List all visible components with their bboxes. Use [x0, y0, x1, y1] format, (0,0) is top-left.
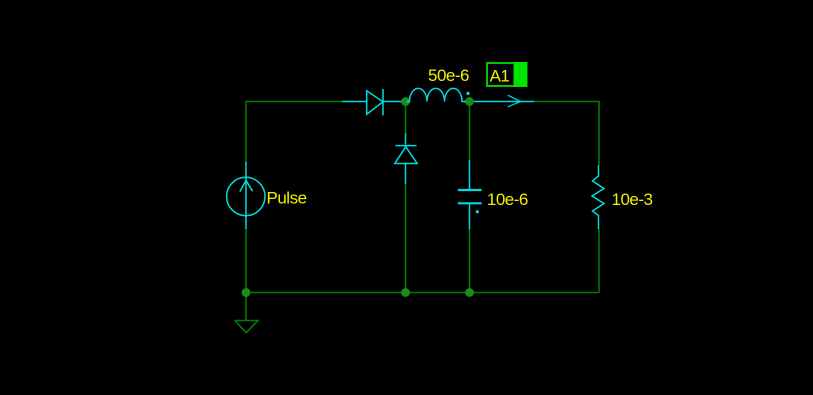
svg-text:A1: A1 [490, 66, 510, 85]
svg-text:10e-3: 10e-3 [612, 190, 653, 209]
svg-text:50e-6: 50e-6 [428, 66, 469, 85]
svg-text:Pulse: Pulse [267, 189, 307, 208]
svg-text:10e-6: 10e-6 [487, 190, 528, 209]
